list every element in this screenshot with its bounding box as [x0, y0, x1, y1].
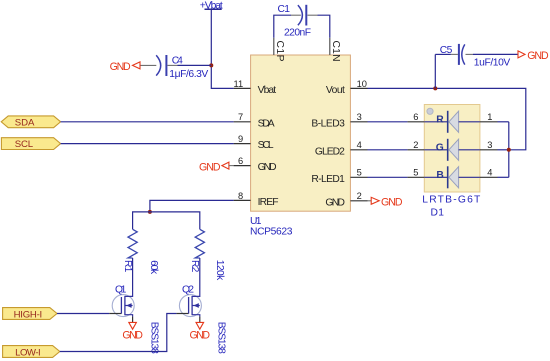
- svg-text:BSS138: BSS138: [216, 322, 227, 354]
- svg-text:C1P: C1P: [274, 41, 285, 62]
- wire R1 to Q1 drain: [132, 258, 134, 290]
- ground port right of C5: [518, 50, 549, 62]
- wire +Vbat vertical: [211, 10, 233, 89]
- pin C1N stub: [329, 38, 331, 55]
- connector HIGH-I: [3, 308, 57, 321]
- pin 10 Vout stub: [350, 87, 367, 89]
- wire SDA: [61, 121, 234, 123]
- transistor Q1: [109, 285, 159, 354]
- svg-text:120k: 120k: [214, 260, 225, 281]
- svg-text:7: 7: [238, 112, 243, 122]
- wire resistor top rail: [133, 212, 200, 229]
- svg-text:8: 8: [238, 191, 243, 201]
- svg-text:G: G: [436, 142, 444, 153]
- connector SCL: [1, 138, 60, 151]
- svg-text:9: 9: [238, 134, 243, 144]
- wire C5 to GND port: [473, 53, 518, 55]
- svg-text:10: 10: [357, 79, 367, 89]
- pin 2 GND stub: [350, 200, 367, 202]
- wire C4 to +Vbat: [178, 64, 212, 66]
- ground port under Q1: [122, 322, 143, 341]
- svg-text:5: 5: [413, 168, 418, 178]
- pin C1P stub: [273, 38, 275, 55]
- svg-text:GND: GND: [122, 329, 143, 341]
- wire C1 right loop: [318, 15, 330, 38]
- svg-text:GND: GND: [110, 61, 131, 73]
- pin 11 Vbat stub: [234, 87, 251, 89]
- pin 5 R-LED1 stub: [350, 176, 367, 178]
- svg-text:B: B: [436, 170, 443, 181]
- svg-text:C1N: C1N: [330, 41, 341, 62]
- svg-text:2: 2: [413, 140, 418, 150]
- svg-text:6: 6: [413, 112, 418, 122]
- svg-text:LRTB-G6T: LRTB-G6T: [422, 195, 481, 206]
- wire IREF: [150, 200, 234, 212]
- svg-text:3: 3: [487, 140, 492, 150]
- wire LED bus vertical: [508, 122, 510, 178]
- svg-text:Q2: Q2: [182, 285, 194, 296]
- ground port left of C4: [110, 61, 140, 73]
- svg-text:GLED2: GLED2: [315, 146, 345, 157]
- svg-text:B-LED3: B-LED3: [311, 118, 345, 129]
- svg-text:R: R: [436, 114, 444, 125]
- svg-text:1: 1: [487, 112, 492, 122]
- svg-text:R-LED1: R-LED1: [311, 174, 345, 185]
- svg-text:U1: U1: [250, 216, 262, 227]
- node junction C4 tap: [209, 63, 213, 67]
- node junction IREF split: [148, 210, 152, 214]
- svg-text:GND: GND: [325, 197, 345, 208]
- pin 4 GLED2 stub: [350, 149, 367, 151]
- ground port at pin 2: [368, 197, 403, 209]
- svg-text:Vout: Vout: [326, 85, 345, 96]
- svg-text:IREF: IREF: [258, 197, 279, 208]
- svg-text:Vbat: Vbat: [258, 85, 277, 96]
- svg-text:C1: C1: [278, 4, 291, 15]
- svg-text:2: 2: [357, 191, 362, 201]
- LED package D1 body: [424, 105, 480, 193]
- capacitor C4: [140, 55, 208, 80]
- connector SDA: [1, 116, 60, 128]
- pin 8 IREF stub: [234, 199, 251, 201]
- svg-text:C5: C5: [440, 45, 453, 56]
- wire C1 left loop: [274, 15, 291, 38]
- svg-text:4: 4: [357, 140, 362, 150]
- node junction C5 tap: [433, 86, 437, 90]
- svg-text:1μF/6.3V: 1μF/6.3V: [169, 69, 208, 80]
- LED G row: pins 2 and 3: [407, 139, 508, 161]
- wire Vout to bus: [368, 88, 526, 149]
- connector LOW-I: [3, 346, 60, 359]
- svg-text:HIGH-I: HIGH-I: [14, 309, 43, 320]
- resistor R2: [189, 229, 225, 281]
- wire C5 vertical: [434, 54, 436, 88]
- svg-text:LOW-I: LOW-I: [15, 347, 41, 358]
- svg-text:Q1: Q1: [115, 285, 127, 296]
- ground port at pin 6: [199, 161, 234, 173]
- wire SCL: [61, 143, 234, 145]
- wire LOW to Q2 gate: [60, 314, 177, 352]
- LED R row: pins 6 and 1: [407, 111, 508, 133]
- svg-text:GND: GND: [258, 162, 277, 173]
- svg-text:R2: R2: [189, 260, 200, 273]
- svg-text:SDA: SDA: [258, 118, 275, 129]
- resistor R1: [122, 229, 159, 275]
- svg-text:R1: R1: [122, 260, 133, 273]
- svg-text:NCP5623: NCP5623: [250, 227, 293, 238]
- pin 9 SCL stub: [234, 143, 251, 145]
- svg-text:5: 5: [357, 168, 362, 178]
- svg-text:SDA: SDA: [15, 117, 35, 128]
- wire R2 to Q2 drain: [199, 258, 201, 290]
- svg-text:6: 6: [238, 156, 243, 166]
- svg-text:3: 3: [357, 112, 362, 122]
- pin 7 SDA stub: [234, 121, 251, 123]
- svg-text:GND: GND: [381, 197, 403, 209]
- svg-text:GND: GND: [190, 329, 211, 341]
- svg-text:11: 11: [234, 79, 244, 89]
- ground port under Q2: [190, 322, 211, 341]
- transistor Q2: [176, 285, 226, 354]
- pin 3 B-LED3 stub: [350, 121, 367, 123]
- svg-text:60k: 60k: [148, 260, 159, 275]
- svg-text:1uF/10V: 1uF/10V: [474, 58, 511, 69]
- svg-text:SCL: SCL: [15, 139, 34, 150]
- pin 6 GND stub: [234, 165, 251, 167]
- svg-text:4: 4: [487, 168, 492, 178]
- node junction LED bus: [507, 148, 511, 152]
- wire pin4 to pin2: [368, 149, 408, 151]
- wire HIGH to Q1 gate: [57, 313, 109, 315]
- wire pin5 to pin5: [368, 176, 408, 178]
- wire pin3 to pin6: [368, 121, 408, 123]
- op-amp U1 body: [251, 55, 351, 211]
- svg-text:220nF: 220nF: [284, 28, 311, 39]
- svg-text:GND: GND: [199, 161, 221, 173]
- svg-text:D1: D1: [431, 208, 445, 219]
- capacitor C1: [278, 4, 318, 39]
- svg-text:BSS138: BSS138: [149, 322, 160, 354]
- svg-text:SCL: SCL: [258, 140, 274, 151]
- svg-text:GND: GND: [527, 50, 549, 62]
- LED B row: pins 5 and 4: [407, 166, 508, 188]
- capacitor C5: [435, 44, 510, 69]
